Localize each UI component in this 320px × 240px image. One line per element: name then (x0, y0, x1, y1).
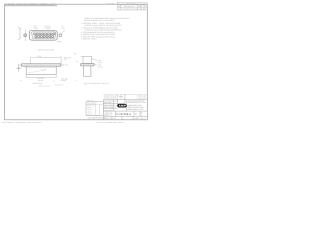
tolerance sub-block inner top line (86, 103, 103, 105)
application header strip top-left (5, 3, 56, 6)
svg-text:CUSTOMER DRAWING: CUSTOMER DRAWING (88, 116, 107, 119)
side view: bottom dimension extension right (55, 75, 57, 78)
end view: upper mating shell (83, 56, 92, 63)
svg-text:RECEPTACLE, 15 P: RECEPTACLE, 15 P (128, 108, 144, 111)
end view: right labels (98, 59, 103, 68)
side view: body inner top line (26, 66, 56, 68)
svg-text:A1: A1 (135, 113, 137, 116)
side view: bottom dimension line (26, 76, 56, 78)
svg-text:REVISIONS: REVISIONS (127, 2, 137, 5)
tolerance sub-block box (86, 102, 103, 116)
svg-text:REAR VIEW: REAR VIEW (33, 82, 43, 85)
end view: bottom faint dimension line (84, 82, 101, 84)
face view: label leader ticks (36, 29, 38, 31)
title block: drawing title (128, 104, 145, 111)
end view: flange dotted midline (81, 64, 93, 66)
side view: lower right annotation (61, 77, 69, 82)
svg-text:METRIC EQUIVALENTS IN BRACKETS: METRIC EQUIVALENTS IN BRACKETS (84, 19, 115, 22)
end view: body (83, 66, 91, 76)
svg-text:.120: .120 (61, 27, 64, 30)
side view: bottom dimension extension left (25, 75, 27, 78)
face view: connector shell outer (29, 30, 57, 40)
face view: below right ear tick (57, 41, 62, 43)
face view: right ear hole (59, 34, 62, 37)
svg-text:THREAD: THREAD (44, 26, 52, 29)
svg-text:[25.0]: [25.0] (33, 26, 38, 29)
face view: left dim arrowheads (20, 28, 21, 29)
end view: flange bar (81, 64, 94, 66)
title block: top row texts (104, 95, 146, 112)
sheet border frame (5, 4, 148, 120)
svg-text:.49: .49 (17, 38, 19, 41)
side view: right annotation underline (64, 57, 72, 59)
svg-text:.66: .66 (17, 26, 19, 29)
svg-text:C: C (104, 112, 106, 116)
svg-text:PART NO: PART NO (87, 100, 94, 102)
end view: right leader (92, 58, 97, 60)
face view: left ear hole cross tick (23, 34, 27, 36)
face view: left ear hole (24, 34, 27, 37)
face view: top label right (pin count) (44, 24, 52, 29)
title block: bottom row text (104, 117, 144, 120)
title block: top row cells (103, 94, 147, 120)
revision table (117, 3, 147, 11)
svg-text:LTR DIST: LTR DIST (106, 3, 115, 6)
svg-text:2.635: 2.635 (37, 55, 41, 58)
side view: flange bar (22, 64, 61, 66)
customer drawing cell (86, 114, 103, 116)
svg-text:C-747150-4: C-747150-4 (116, 113, 131, 116)
face view: pin circles row 2 (7 pins) (35, 36, 54, 38)
face view: pin circles row 1 (8 pins) (33, 33, 55, 35)
face view: top label left (2X thread) (33, 25, 38, 30)
svg-text:6. PART NO 747150: 6. PART NO 747150 (81, 38, 96, 41)
notes block (81, 17, 130, 40)
side view: flange left arrow (18, 64, 22, 66)
end view: right leader 2 (94, 63, 97, 66)
application header divider (5, 5, 58, 7)
side view: top dimension extension left (29, 58, 31, 63)
title block: projection cross symbol (119, 95, 123, 99)
revision table text (118, 2, 149, 10)
face view: right ear leader line (61, 30, 65, 34)
side view: flange right arrow (61, 64, 64, 66)
title block: AMP logo (117, 104, 126, 108)
side view: datum symbol horizontal (16, 67, 22, 69)
side view: datum circle (18, 67, 20, 69)
face view: left vertical dimension line (19, 28, 21, 38)
side view: flange dotted midline (22, 64, 61, 66)
tolerance sub-block texts (87, 103, 97, 116)
svg-text:0 PLC ±—: 0 PLC ±— (87, 107, 94, 109)
svg-text:2.240 REF: 2.240 REF (36, 77, 44, 80)
side view: body (26, 66, 56, 74)
side view: top dimension extension right (60, 56, 62, 65)
title block: AMP logo letters (119, 105, 126, 107)
side view: leader arrow tip (44, 69, 47, 70)
svg-text:TOLERANCES: TOLERANCES (87, 103, 97, 105)
tolerance sub-block right cell dashes (97, 106, 101, 115)
end view: upper shell top tick left (81, 55, 83, 57)
svg-text:ANGLES ±2: ANGLES ±2 (87, 105, 95, 107)
face view: D insert (32, 32, 56, 39)
side view: top dimension line (30, 57, 61, 59)
side view: datum symbol vertical (18, 65, 20, 72)
face view: left mounting ear centerline (24, 29, 26, 41)
side view: right upper annotation (64, 56, 67, 61)
title block: company name (128, 99, 146, 104)
side view: dashed leader inside body (29, 70, 44, 73)
svg-text:1 PLC ±—: 1 PLC ±— (87, 109, 94, 111)
tolerance sub-block inner verticals (96, 104, 100, 115)
svg-text:MATING FACE VIEW: MATING FACE VIEW (38, 48, 55, 51)
svg-text:2 PLC ±—: 2 PLC ±— (87, 111, 94, 113)
